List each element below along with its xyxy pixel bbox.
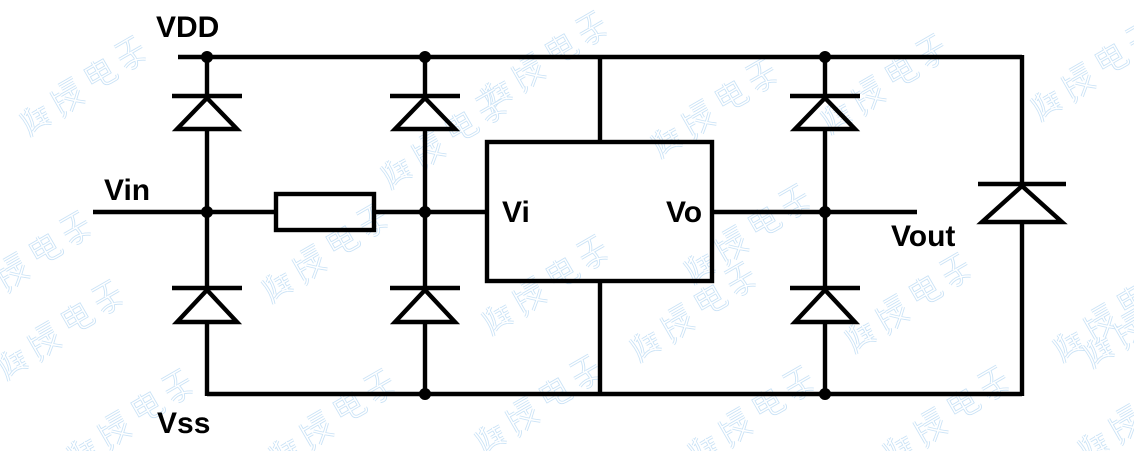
wire branch2 vertical top (423, 57, 427, 96)
diode top branch3 (790, 96, 860, 129)
node dot VDD/branch3 (819, 51, 831, 63)
wire branch3 vertical bottom (823, 322, 827, 394)
svg-text:Vout: Vout (891, 220, 955, 253)
node dot VDD/branch1 (201, 51, 213, 63)
diode bottom branch1 (172, 288, 242, 322)
diode top branch1 (172, 96, 242, 129)
svg-text:Vi: Vi (502, 196, 530, 229)
node dot VDD/branch2 (419, 51, 431, 63)
wire box top to VDD (598, 57, 602, 142)
wire branch3 vertical mid (823, 129, 827, 288)
wire branch2 vertical mid (423, 129, 427, 288)
node dot Vout/branch3 (819, 206, 831, 218)
node dot Vss/branch3 (819, 388, 831, 400)
wire VDD top rail (178, 55, 1022, 59)
diode bottom branch3 (790, 288, 860, 322)
svg-text:VDD: VDD (156, 11, 219, 44)
resistor R1 (276, 194, 374, 230)
wire right vertical (VDD to Vss via right diode) (1020, 55, 1024, 184)
wire branch3 vertical top (823, 57, 827, 96)
wire box bottom to Vss (598, 281, 602, 394)
wire Vin lead (93, 210, 276, 214)
wire branch1 vertical mid (205, 129, 209, 288)
amplifier block U1 (487, 142, 712, 281)
diode bottom branch2 (390, 288, 460, 322)
diode right (large) (978, 184, 1066, 222)
wire branch1 vertical top (205, 57, 209, 96)
wire right vertical lower (1020, 222, 1024, 396)
node dot Vss/branch2 (419, 388, 431, 400)
svg-text:Vin: Vin (104, 174, 150, 207)
wire resistor to box (374, 210, 487, 214)
wire Vss bottom rail (207, 392, 1022, 396)
node dot signal/branch2 (419, 206, 431, 218)
wire branch1 vertical bottom (205, 322, 209, 396)
wire Vo to Vout (712, 210, 917, 214)
node dot Vin/branch1 (201, 206, 213, 218)
svg-text:Vss: Vss (157, 407, 210, 440)
svg-text:Vo: Vo (666, 196, 702, 229)
diode top branch2 (390, 96, 460, 129)
wire branch2 vertical bottom (423, 322, 427, 394)
